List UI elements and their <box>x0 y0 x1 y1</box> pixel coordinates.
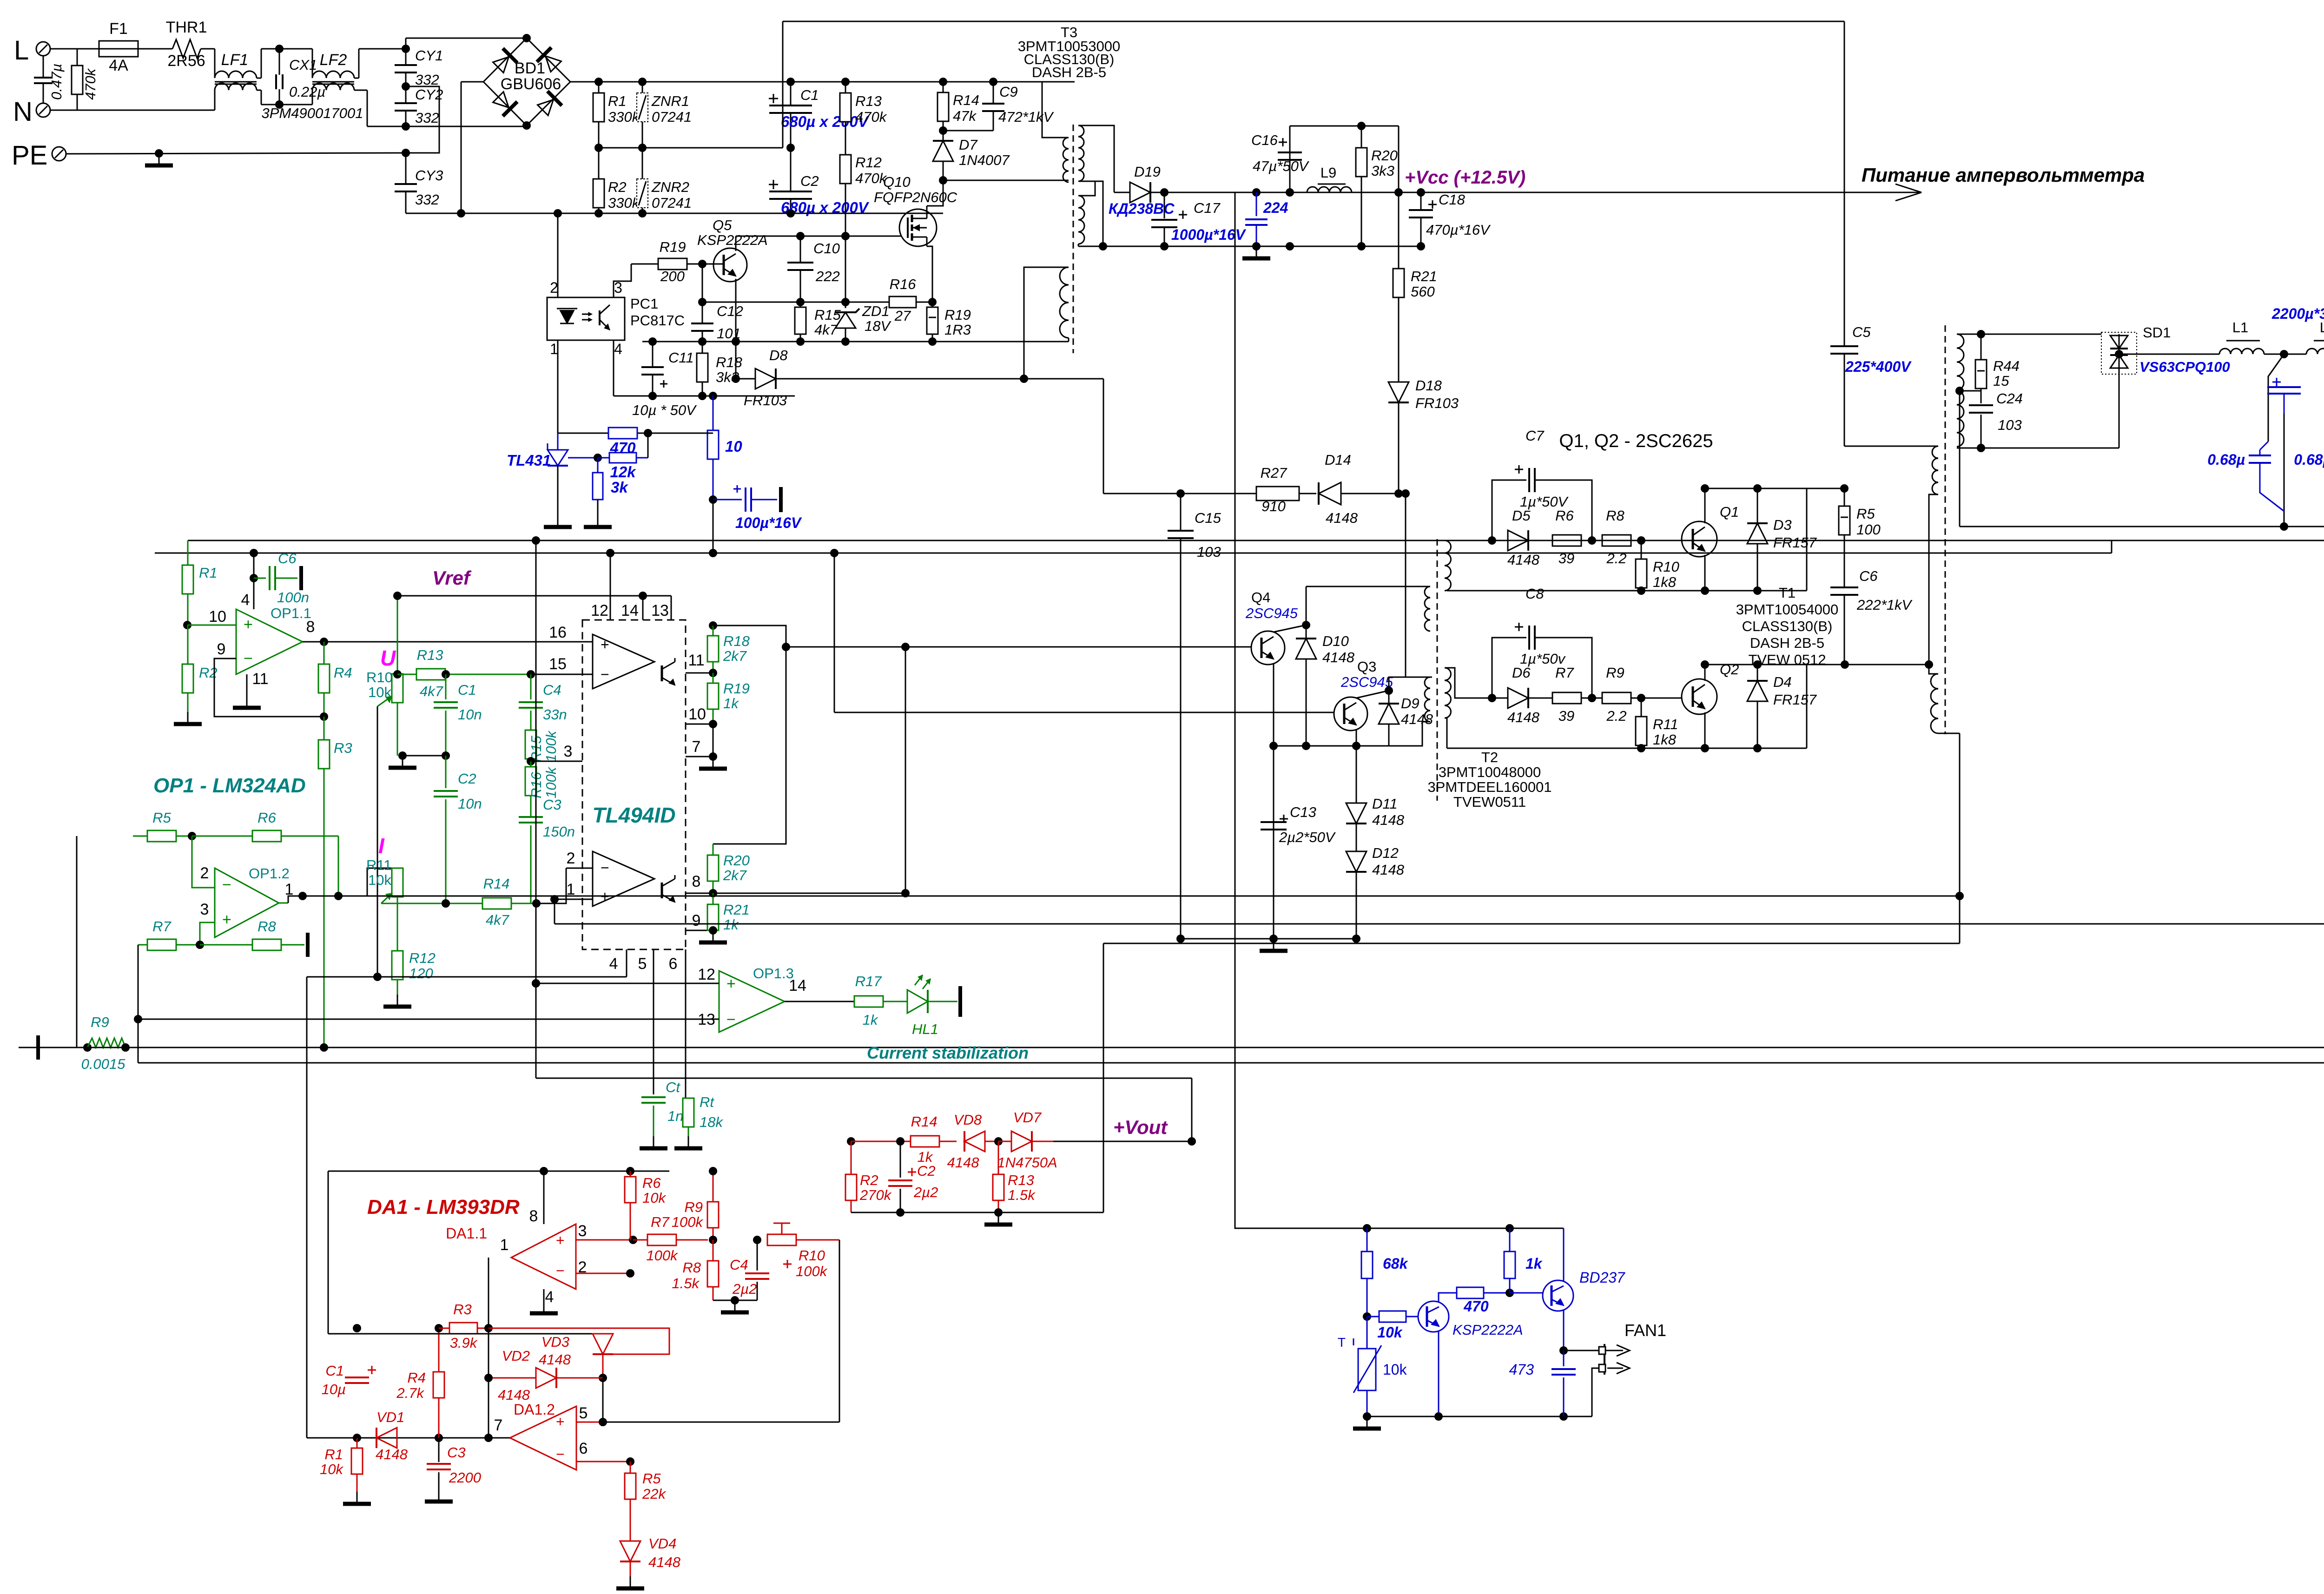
vertical feedback <box>630 1240 631 1462</box>
wire pin3 <box>133 905 147 945</box>
node R1 top <box>594 78 603 86</box>
node R19b bottom <box>928 337 937 346</box>
wire pin5 right <box>603 1422 839 1423</box>
node R7 R9 R8 <box>709 1236 717 1244</box>
svg-text:1k: 1k <box>863 1012 878 1028</box>
rail aux minus <box>614 395 795 397</box>
svg-text:Q5: Q5 <box>713 217 732 233</box>
svg-text:16: 16 <box>549 624 567 641</box>
diode D18 FR103 <box>1388 382 1409 402</box>
wire pin10 <box>187 625 236 626</box>
node C8 left <box>1488 694 1496 702</box>
node R20 bottom vcc <box>1394 188 1403 197</box>
svg-text:R19: R19 <box>944 307 971 323</box>
varistor ZNR1 07241 <box>642 82 643 93</box>
svg-text:R5: R5 <box>152 810 171 826</box>
node pin7 <box>709 752 717 761</box>
resistor R14 47k <box>943 82 944 92</box>
svg-text:OP1.1: OP1.1 <box>271 605 311 621</box>
dual diode SD1 VS63CPQ100 <box>2101 332 2137 374</box>
svg-text:−: − <box>601 666 609 683</box>
svg-text:07241: 07241 <box>652 195 692 211</box>
svg-text:2: 2 <box>550 279 558 296</box>
wire OP1.2 output <box>279 902 288 904</box>
wire pin10-7 <box>713 724 714 757</box>
resistor 68k blue <box>1367 1228 1368 1252</box>
resistor R5 22k red <box>630 1462 631 1473</box>
ground Rt <box>688 1136 689 1148</box>
svg-text:DA1 - LM393DR: DA1 - LM393DR <box>367 1196 520 1219</box>
svg-text:VD7: VD7 <box>1013 1109 1042 1126</box>
wire CY1 to bridge top <box>405 38 407 49</box>
resistor R13 4k7 green <box>397 674 416 675</box>
svg-text:4k7: 4k7 <box>486 912 510 928</box>
svg-text:12k: 12k <box>610 463 636 481</box>
wire T1 tap <box>1957 390 1981 392</box>
svg-text:1k: 1k <box>723 695 739 711</box>
svg-text:T1: T1 <box>1779 585 1796 601</box>
resistor R19 1k green <box>713 673 714 683</box>
svg-text:C8: C8 <box>1525 586 1544 602</box>
svg-text:T2: T2 <box>1481 749 1498 765</box>
node C3 bottom <box>532 899 541 908</box>
diode VD1 4148 <box>376 1428 397 1448</box>
wire R5 sense <box>76 836 78 1047</box>
node R14-C9 <box>939 126 947 135</box>
svg-text:4148: 4148 <box>947 1154 980 1171</box>
resistor R12 470k <box>840 155 851 184</box>
svg-text:R7: R7 <box>152 918 172 935</box>
svg-text:DA1.2: DA1.2 <box>514 1401 555 1418</box>
svg-text:470k: 470k <box>82 68 99 100</box>
capacitor C8 1u 50v <box>1492 638 1526 698</box>
resistor R16 100k green <box>530 761 532 767</box>
resistor R13 470k <box>845 82 846 93</box>
wire base Q4 <box>905 646 1251 648</box>
svg-text:R6: R6 <box>1555 507 1574 524</box>
drive ground rail <box>1181 938 1356 940</box>
wire pin5 riser <box>602 1378 604 1422</box>
svg-text:D3: D3 <box>1773 517 1792 533</box>
resistor R13 1.5k red <box>998 1141 999 1174</box>
resistor 10 blue <box>713 396 714 430</box>
svg-text:R6: R6 <box>642 1175 661 1191</box>
wire DA11 pin3 <box>576 1239 647 1240</box>
resistor R3 3.9k red <box>439 1328 449 1329</box>
svg-text:D12: D12 <box>1372 845 1399 861</box>
transistor Q3 2SC945 <box>1334 697 1367 731</box>
node C16 gnd <box>1286 242 1294 250</box>
svg-text:100k: 100k <box>672 1214 704 1230</box>
wire Q10 drain <box>926 206 928 209</box>
capacitor C1 10n green <box>445 674 447 699</box>
node R20 top <box>1357 122 1366 130</box>
capacitor C10 222 <box>800 236 801 263</box>
node T3 center tap <box>1099 242 1107 250</box>
svg-text:D5: D5 <box>1512 507 1531 524</box>
svg-text:4A: 4A <box>109 57 128 74</box>
driver transistor 2 <box>661 883 663 898</box>
node 224 top <box>1252 188 1261 197</box>
connector FAN1 <box>1564 1350 1604 1351</box>
svg-text:2k7: 2k7 <box>723 867 747 883</box>
svg-text:FQFP2N60C: FQFP2N60C <box>874 189 957 205</box>
node VD2 VD3 <box>599 1374 607 1382</box>
svg-text:3PMT10048000: 3PMT10048000 <box>1439 764 1541 780</box>
resistor 12k blue <box>598 457 609 459</box>
svg-text:C2: C2 <box>800 173 819 189</box>
wire wiper R11 <box>381 903 482 904</box>
node C24 bottom <box>1977 444 1985 452</box>
svg-text:22k: 22k <box>642 1486 666 1502</box>
wire Q10 source <box>927 246 932 302</box>
resistor R18 3k3 <box>702 342 703 353</box>
svg-text:R19: R19 <box>660 239 686 255</box>
svg-text:+: + <box>244 616 253 633</box>
ground R2 <box>187 712 189 724</box>
diode D6 4148 <box>1492 698 1508 699</box>
wire T1 tap gnd <box>1959 391 1961 527</box>
zener ZD1 18V <box>841 298 850 306</box>
node R4 bottom red <box>435 1434 443 1442</box>
svg-text:R44: R44 <box>1993 358 2020 374</box>
node pin8 <box>709 889 717 897</box>
node R3 left <box>353 1324 361 1332</box>
wire KSP collector <box>1439 1293 1457 1303</box>
resistor 470k input <box>77 49 78 66</box>
diode VD2 4148 <box>489 1377 536 1379</box>
svg-text:PC1: PC1 <box>630 296 658 312</box>
svg-text:VS63CPQ100: VS63CPQ100 <box>2139 359 2230 375</box>
node C7 left <box>1488 536 1496 545</box>
svg-text:Current stabilization: Current stabilization <box>867 1043 1029 1062</box>
svg-text:332: 332 <box>415 110 439 126</box>
capacitor C11 10u 50V <box>652 342 654 367</box>
svg-text:4: 4 <box>241 591 250 609</box>
svg-text:+: + <box>601 636 609 653</box>
transistor KSP2222A blue <box>1418 1301 1449 1332</box>
svg-text:R12: R12 <box>409 950 436 966</box>
capacitor C6b 222 1kV <box>1830 586 1858 588</box>
wire R10 out <box>796 1239 839 1241</box>
node R18aux top <box>698 337 706 346</box>
svg-text:C11: C11 <box>668 349 694 366</box>
capacitor C13 2u2 50V <box>1280 818 1288 820</box>
svg-text:0.0015: 0.0015 <box>81 1056 126 1072</box>
svg-text:1: 1 <box>500 1236 509 1254</box>
svg-text:R8: R8 <box>257 918 276 935</box>
resistor R19 1R3 <box>932 302 933 307</box>
ground fan <box>1367 1416 1368 1429</box>
svg-text:CY1: CY1 <box>415 47 443 64</box>
svg-text:FAN1: FAN1 <box>1624 1321 1666 1340</box>
wire base to C12 <box>702 264 703 302</box>
capacitor C5 225 400V <box>1844 21 1845 345</box>
svg-text:−: − <box>244 650 253 667</box>
diode VD7 1N4750A <box>1011 1131 1032 1152</box>
svg-text:332: 332 <box>415 191 439 208</box>
svg-text:PC817C: PC817C <box>630 312 685 329</box>
svg-text:R13: R13 <box>1008 1172 1034 1188</box>
svg-text:+: + <box>556 1413 565 1430</box>
node R18aux bottom <box>698 392 706 400</box>
wire r2 r14 <box>851 1141 900 1142</box>
svg-text:6: 6 <box>579 1440 588 1457</box>
svg-text:224: 224 <box>1263 199 1288 216</box>
node R14g left <box>442 899 450 908</box>
node ZD1 bottom <box>841 337 850 346</box>
wire D14 to T2 <box>1406 494 1432 677</box>
node ZNR1 top <box>638 78 647 86</box>
wire R18 top loop <box>713 626 786 844</box>
wire pin11 gnd <box>246 674 248 696</box>
svg-text:R11: R11 <box>1653 716 1678 732</box>
svg-text:D18: D18 <box>1415 377 1442 394</box>
wire DA12 pin5 <box>576 1422 603 1423</box>
opamp DA1.2 <box>510 1406 576 1470</box>
svg-text:470: 470 <box>1463 1298 1489 1315</box>
node L1 L2 <box>2280 350 2288 358</box>
rail DA1 supply <box>328 1171 669 1172</box>
ground VD4 <box>630 1576 631 1588</box>
svg-text:10µ * 50V: 10µ * 50V <box>632 402 697 418</box>
svg-text:C2: C2 <box>917 1163 936 1179</box>
svg-text:4148: 4148 <box>1507 552 1540 568</box>
wire Q3 drive <box>830 549 838 557</box>
transistor Q5 KSP2222A <box>713 248 747 282</box>
rail supply mid <box>155 553 2112 554</box>
svg-text:D10: D10 <box>1322 633 1349 649</box>
svg-text:9: 9 <box>217 640 226 658</box>
svg-text:R20: R20 <box>1371 147 1398 164</box>
svg-text:2.7k: 2.7k <box>396 1385 424 1401</box>
node D14 out <box>1401 489 1410 498</box>
resistor R15 100k green <box>525 730 536 759</box>
transformer T2 primary top <box>1425 586 1430 631</box>
svg-text:14: 14 <box>621 602 639 619</box>
wire R27 line <box>1103 493 1181 494</box>
svg-text:103: 103 <box>1197 544 1221 560</box>
svg-text:2µ2*50V: 2µ2*50V <box>1279 829 1336 845</box>
node PE-CY3 <box>402 149 410 157</box>
bus riser 660 <box>306 977 308 1438</box>
diode D3 FR157 <box>1753 484 1762 493</box>
svg-text:−: − <box>222 876 231 894</box>
wire Q5 emitter <box>735 279 737 379</box>
rail 12V minus <box>1103 246 1421 247</box>
svg-text:R2: R2 <box>860 1172 878 1188</box>
node C18 bottom <box>1417 242 1425 250</box>
resistor R1 green <box>187 540 189 565</box>
svg-text:+Vcc (+12.5V): +Vcc (+12.5V) <box>1405 167 1525 188</box>
svg-text:15: 15 <box>549 655 567 673</box>
transformer T2 core <box>1437 539 1438 801</box>
svg-text:C4: C4 <box>730 1257 748 1273</box>
svg-text:R4: R4 <box>334 665 352 681</box>
svg-text:C1: C1 <box>325 1363 344 1379</box>
resistor R17 1k green <box>854 996 883 1007</box>
svg-text:9: 9 <box>692 912 701 929</box>
resistor R4 2.7k red <box>438 1328 440 1372</box>
svg-text:Q1, Q2 - 2SC2625: Q1, Q2 - 2SC2625 <box>1559 431 1713 451</box>
node bottom CY3 <box>406 213 461 214</box>
inductor L9 <box>1307 187 1352 192</box>
ground R12 <box>397 995 398 1007</box>
resistor R5 green <box>77 836 147 837</box>
resistor R27 910 <box>1181 493 1256 494</box>
svg-text:R14: R14 <box>953 92 979 108</box>
svg-text:R14: R14 <box>483 876 510 892</box>
diode D8 FR103 <box>736 378 755 380</box>
capacitor C9 472 1kV <box>993 82 994 104</box>
svg-text:2SC945: 2SC945 <box>1340 674 1393 690</box>
svg-text:C3: C3 <box>543 797 561 813</box>
node 470 right <box>644 429 652 437</box>
svg-text:R4: R4 <box>407 1370 426 1386</box>
diode VD8 4148 <box>964 1131 985 1152</box>
wire R10 to pin5 <box>839 1240 840 1422</box>
wire THR1 to LF1 <box>201 48 215 50</box>
wire BD237 base <box>1510 1292 1543 1294</box>
resistor R9 2.2 <box>1592 698 1603 699</box>
transformer T1 aux winding <box>1931 674 1938 733</box>
wire DA11 pin2 <box>576 1273 630 1274</box>
svg-text:D11: D11 <box>1372 796 1398 812</box>
inductor L1 <box>2219 349 2264 354</box>
wire vout row right <box>1053 1141 1192 1142</box>
svg-text:2: 2 <box>200 864 209 882</box>
node OP1 pin10 <box>183 621 191 629</box>
collector bus bottom <box>1705 664 1845 665</box>
svg-text:C16: C16 <box>1251 132 1278 148</box>
svg-text:R16: R16 <box>890 276 917 292</box>
svg-text:U: U <box>380 646 396 670</box>
svg-text:2R56: 2R56 <box>167 52 205 70</box>
rail 12V plus <box>1256 192 1421 193</box>
svg-text:470µ*16V: 470µ*16V <box>1426 222 1491 238</box>
svg-text:4148: 4148 <box>498 1387 530 1403</box>
node C16 bottom rail <box>1286 188 1294 197</box>
wire 10 to rail <box>713 500 714 553</box>
svg-text:4k7: 4k7 <box>814 322 838 338</box>
svg-text:C15: C15 <box>1195 510 1221 526</box>
node C9 top <box>989 78 997 86</box>
svg-text:222*1kV: 222*1kV <box>1856 597 1913 613</box>
bus riser 2564 <box>1191 1078 1193 1141</box>
node C30 gnd <box>2280 522 2288 531</box>
svg-text:2.2: 2.2 <box>1606 708 1626 724</box>
svg-text:103: 103 <box>1998 417 2022 433</box>
node R4 bottom <box>320 712 328 721</box>
node fan 1k top <box>1505 1224 1514 1232</box>
opamp OP1.3 <box>719 971 785 1032</box>
capacitor C24 103 <box>1981 391 1982 403</box>
wire SD1 to L1 <box>2119 354 2219 355</box>
svg-text:SD1: SD1 <box>2143 324 2171 341</box>
svg-text:10k: 10k <box>1383 1361 1407 1378</box>
node R6 right <box>1588 536 1596 545</box>
capacitor 224 blue <box>1256 192 1257 216</box>
svg-text:N: N <box>13 97 33 127</box>
svg-text:D8: D8 <box>769 347 788 363</box>
output GND rail <box>1960 526 2324 527</box>
resistor R2 330k <box>598 148 600 179</box>
capacitor 473 blue <box>1563 1350 1565 1366</box>
node PE ground <box>155 149 163 158</box>
diode D9 4148 <box>1388 691 1390 703</box>
capacitor C6 100n <box>254 578 266 579</box>
resistor R19 200 <box>631 263 659 265</box>
svg-text:R3: R3 <box>453 1301 472 1317</box>
svg-text:1R3: 1R3 <box>944 322 971 338</box>
node pin11 <box>709 669 717 677</box>
svg-text:1.5k: 1.5k <box>672 1275 700 1291</box>
svg-text:TVEW 0512: TVEW 0512 <box>1748 652 1826 668</box>
transformer T2 secondary 1 <box>1445 540 1451 591</box>
svg-text:0.47µ: 0.47µ <box>48 64 65 100</box>
svg-text:+: + <box>726 975 736 993</box>
thermistor T 10k blue <box>1367 1317 1368 1349</box>
node 224 bottom <box>1252 242 1261 250</box>
wire R20 col down <box>1361 192 1362 246</box>
wire DA11 out <box>488 1258 489 1438</box>
bus riser 2374b <box>1103 943 1104 1212</box>
terminal N <box>36 103 50 117</box>
node R2 top <box>847 1137 855 1146</box>
node 100u cap <box>709 495 717 504</box>
node CY1 top <box>402 45 410 53</box>
svg-text:R13: R13 <box>855 93 882 109</box>
transformer T1 secondary <box>1957 334 1964 390</box>
node fan gnd <box>1363 1412 1371 1421</box>
svg-text:+: + <box>222 911 231 929</box>
svg-text:C7: C7 <box>1525 428 1545 444</box>
svg-text:1.5k: 1.5k <box>1008 1187 1036 1203</box>
svg-text:C4: C4 <box>543 682 561 698</box>
transistor BD237 blue <box>1543 1280 1573 1311</box>
resistor R10 1k8 <box>1641 540 1642 559</box>
svg-text:Q4: Q4 <box>1251 589 1270 606</box>
svg-text:3PMT10054000: 3PMT10054000 <box>1736 601 1839 618</box>
capacitor C2 2u2 red <box>900 1141 901 1178</box>
wire C16 top to vcc <box>1398 126 1400 192</box>
svg-text:CLASS130(B): CLASS130(B) <box>1742 618 1833 634</box>
svg-text:C17: C17 <box>1194 200 1221 216</box>
resistor R20 2k7 green <box>707 855 719 881</box>
node D10 bottom <box>1302 742 1310 750</box>
capacitor 0.47u input <box>43 56 44 77</box>
transistor Q2 2SC2625 <box>1682 679 1717 714</box>
wire DA11 pin8 <box>543 1171 545 1224</box>
resistor R21 560 <box>1393 269 1404 297</box>
wire VD3 top <box>328 1333 603 1334</box>
svg-text:4148: 4148 <box>376 1446 408 1462</box>
svg-text:10µ: 10µ <box>322 1381 346 1397</box>
rail vcc arrow <box>1399 192 1921 193</box>
svg-text:200: 200 <box>660 268 685 284</box>
svg-text:OP1 - LM324AD: OP1 - LM324AD <box>153 774 306 797</box>
svg-text:C12: C12 <box>717 303 743 319</box>
node OP1.2 out <box>298 892 307 900</box>
wire Q2 emitter <box>1704 712 1706 748</box>
resistor Rt 18k green <box>683 1098 694 1127</box>
ground Ct <box>653 1136 654 1148</box>
svg-text:5: 5 <box>579 1404 588 1422</box>
wire op13 out <box>785 1001 854 1002</box>
node Q5 emitter rail <box>732 337 740 346</box>
transistor Q1 2SC2625 <box>1682 521 1717 557</box>
svg-text:07241: 07241 <box>652 109 692 125</box>
